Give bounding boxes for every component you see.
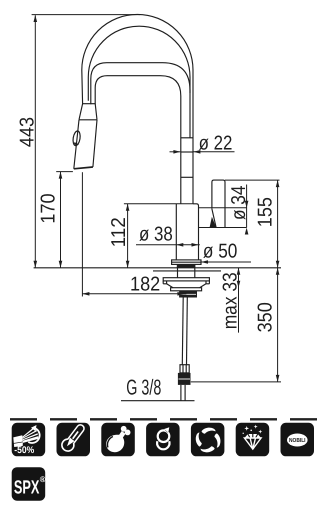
svg-text:-50%: -50%: [14, 445, 34, 456]
svg-text:NOBILI: NOBILI: [289, 437, 306, 444]
svg-text:ø 22: ø 22: [199, 132, 233, 154]
svg-text:®: ®: [40, 475, 46, 484]
svg-text:112: 112: [108, 217, 130, 247]
svg-text:443: 443: [16, 117, 38, 147]
svg-text:SPX: SPX: [14, 478, 40, 499]
svg-text:350: 350: [255, 302, 277, 332]
svg-text:155: 155: [255, 197, 277, 227]
svg-text:182: 182: [130, 274, 160, 296]
svg-text:G 3/8: G 3/8: [126, 376, 161, 400]
svg-text:170: 170: [37, 193, 59, 223]
svg-text:ø 38: ø 38: [139, 224, 173, 246]
svg-text:max 33: max 33: [219, 272, 241, 329]
svg-text:ø 34: ø 34: [228, 186, 250, 221]
svg-text:ø 50: ø 50: [203, 241, 238, 263]
